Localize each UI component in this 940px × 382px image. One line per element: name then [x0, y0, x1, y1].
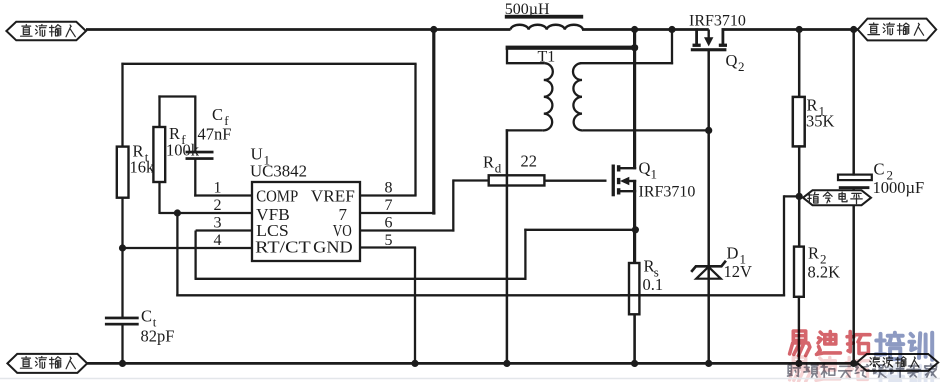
svg-text:500µH: 500µH	[505, 1, 550, 18]
label UC3842	[250, 162, 307, 181]
label 22	[521, 152, 538, 171]
label RT/CT pin name	[255, 237, 311, 256]
svg-text:C: C	[874, 160, 885, 179]
svg-text:8.2K: 8.2K	[808, 263, 841, 282]
svg-text:1: 1	[651, 167, 658, 182]
label IRF3710 for Q1	[639, 184, 696, 201]
wire R1 top vertical	[798, 28, 801, 98]
wire Q1 source vertical to LCS junction and Rs	[633, 180, 636, 264]
junction dot at 506.9,363.4	[503, 360, 510, 367]
svg-text:C: C	[141, 307, 152, 326]
wire C2 top vertical	[852, 28, 855, 176]
svg-text:4: 4	[214, 232, 222, 249]
junction dot at 634.6,29.5	[631, 26, 638, 33]
wire R1 bottom to divider node and R2	[798, 145, 801, 247]
transistor Q1 gate bar	[612, 165, 615, 197]
label 500µH	[505, 1, 550, 18]
node flag DC input top-left	[6, 22, 86, 41]
wire Rf top vertical	[158, 95, 160, 128]
node flag DC input top-right	[858, 19, 937, 41]
capacitor Ct plates	[105, 317, 139, 326]
wire Rt bottom to RT/CT junction and Ct	[121, 197, 123, 318]
wire Rf bottom vertical to pin 2	[158, 181, 160, 214]
wire LCS riser at x=525	[524, 229, 526, 280]
label COMP pin name	[256, 186, 298, 205]
pin number 6	[385, 215, 393, 232]
wire VFB sense vertical from pin2 junction	[176, 213, 178, 296]
svg-text:2: 2	[214, 197, 222, 214]
svg-text:3: 3	[214, 215, 222, 232]
node flag filter input bottom-right	[857, 354, 938, 371]
wire T1 primary left vertical + top horizontal	[507, 49, 545, 64]
svg-text:Q: Q	[726, 51, 738, 70]
label T1	[538, 49, 556, 66]
wire bracket right vertical down to Cf top	[194, 97, 196, 152]
resistor Rs body	[629, 263, 639, 314]
svg-text:0.1: 0.1	[643, 275, 664, 294]
diode D1 triangle	[696, 267, 721, 279]
wire VCC vertical to top rail	[432, 28, 435, 215]
label Rs	[644, 257, 659, 280]
label VREF pin name	[311, 186, 355, 205]
label D1	[727, 244, 747, 267]
op-amp U1 UC3842 box	[252, 182, 360, 261]
svg-text:IRF3710: IRF3710	[689, 12, 746, 29]
wire Rf-Cf bracket top horizontal	[158, 95, 196, 97]
wire GND vertical to ground rail	[414, 248, 416, 364]
wire top rail middle segment (after inductor)	[582, 28, 709, 31]
junction dot at 122.5,363.4	[119, 360, 126, 367]
inductor L 500µH coil	[511, 25, 583, 30]
watermark blue 培训	[876, 333, 933, 360]
svg-text:VREF: VREF	[311, 186, 355, 205]
svg-text:R: R	[808, 244, 819, 263]
watermark red 易迪拓	[790, 331, 870, 356]
pin number 1	[214, 180, 222, 197]
watermark gray 射频和天线设计专家	[788, 364, 937, 378]
wire VCC pin 7 horizontal	[360, 212, 435, 214]
wire top rail right segment (after Q2)	[722, 28, 859, 31]
label 35K	[806, 112, 835, 131]
label 8.2K	[808, 263, 841, 282]
label 指令电平	[808, 192, 863, 204]
wire T1 primary bottom horizontal	[506, 129, 543, 131]
transistor Q2 channel bar	[691, 48, 727, 51]
label Q1	[639, 159, 658, 182]
svg-text:47nF: 47nF	[198, 125, 232, 144]
junction dot at 853.7,363.4	[850, 360, 857, 367]
wire LCS vertical drop	[194, 231, 196, 279]
wire RT/CT pin 4 horizontal	[123, 247, 253, 249]
transformer T1 secondary winding coil	[573, 63, 583, 130]
svg-text:D: D	[727, 244, 739, 263]
wire VFB sense horizontal into divider node	[784, 195, 801, 197]
label 7 inside box	[339, 205, 348, 224]
junction dot at 433.8,29.5	[430, 26, 437, 33]
wire R2 bottom to ground rail	[798, 296, 800, 364]
junction dot at 798.9,363.4	[795, 360, 802, 367]
resistor Rf body	[153, 127, 165, 182]
wire VFB line over Rs (crossing)	[620, 294, 660, 296]
bottom page edge line	[0, 378, 940, 380]
label 47nF	[198, 125, 232, 144]
svg-text:5: 5	[385, 232, 393, 249]
svg-text:COMP: COMP	[256, 186, 298, 205]
wire VFB sense long horizontal	[176, 294, 785, 296]
wire pin 2 VFB horizontal	[160, 212, 253, 214]
label U1	[251, 145, 271, 168]
svg-text:35K: 35K	[806, 112, 835, 131]
label 82pF	[141, 327, 175, 346]
svg-text:7: 7	[385, 197, 393, 214]
junction dot at 672,29.5	[668, 26, 675, 33]
svg-text:RT/CT: RT/CT	[255, 237, 311, 256]
label 滤波输入 bottom-right	[870, 357, 919, 368]
svg-text:100k: 100k	[166, 141, 200, 160]
label LCS pin name	[256, 221, 289, 240]
resistor R2 body	[794, 247, 804, 297]
transistor Q2 drain stub	[693, 28, 701, 47]
transistor Q1 source stub	[620, 190, 637, 192]
label Q2	[726, 51, 745, 74]
wire VO horizontal to Rd	[453, 179, 489, 181]
junction dot at 853.7,29.5	[850, 26, 857, 33]
svg-text:1000µF: 1000µF	[873, 178, 925, 197]
svg-text:C: C	[212, 105, 223, 124]
label VFB pin name	[256, 205, 290, 224]
label Ct	[141, 307, 157, 330]
svg-text:22: 22	[521, 152, 538, 171]
wire LCS pin 3 horizontal	[196, 229, 252, 231]
wire VREF loop right vertical (down to pin 8)	[414, 64, 416, 196]
wire Ct bottom to ground rail	[121, 325, 123, 364]
wire Q2 gate vertical down through D1 to ground	[707, 51, 710, 364]
wire VO vertical riser	[452, 179, 454, 231]
label 12V	[724, 262, 753, 281]
svg-text:2: 2	[738, 59, 745, 74]
resistor Rd body	[489, 175, 545, 185]
label C2	[874, 160, 894, 183]
diode D1 zener cathode bar	[691, 261, 726, 272]
capacitor C2 bottom plate	[839, 186, 870, 189]
wire VREF loop top horizontal	[121, 63, 416, 65]
wire top rail left segment	[86, 28, 511, 31]
transistor Q1 body stub and arrow	[620, 177, 636, 186]
pin number 4	[214, 232, 222, 249]
svg-text:82pF: 82pF	[141, 327, 175, 346]
junction dot at 634.6,363.4	[631, 360, 638, 367]
label R2	[808, 244, 827, 267]
svg-text:d: d	[495, 161, 502, 176]
wire LCS upper horizontal to Rs top junction	[524, 229, 635, 231]
svg-text:6: 6	[385, 215, 393, 232]
label Rd	[483, 153, 502, 176]
svg-text:R: R	[483, 153, 494, 172]
junction dot at 708.7,363.4	[705, 360, 712, 367]
wire Cf bottom vertical to pin 1	[194, 159, 196, 197]
wire Rd to Q1 gate	[544, 180, 607, 182]
junction dot at 634.6,47.7	[631, 44, 638, 51]
junction dot at 708.7,130.4	[705, 127, 712, 134]
svg-text:UC3842: UC3842	[250, 162, 307, 181]
label GND pin name	[313, 237, 353, 256]
wire VO pin 6 horizontal	[360, 229, 454, 231]
label 直流输入 top-left	[21, 25, 76, 37]
svg-text:Q: Q	[639, 159, 651, 178]
junction dot at 635.4,229.8	[632, 226, 639, 233]
svg-text:1: 1	[214, 180, 222, 197]
svg-text:16k: 16k	[130, 158, 156, 177]
pin number 5	[385, 232, 393, 249]
wire drain vertical from rail to Q1 drain	[633, 28, 636, 169]
wire LCS long horizontal	[195, 278, 527, 280]
capacitor C2 top plate	[838, 175, 872, 181]
wire T1 primary vertical down to ground rail	[506, 129, 509, 363]
wire T1 secondary top horizontal	[580, 62, 673, 64]
transistor Q2 source stub	[719, 28, 727, 47]
pin number 2	[214, 197, 222, 214]
transistor Q1 channel ticks	[617, 165, 621, 194]
wire bottom ground rail	[87, 362, 861, 365]
label 1000µF	[873, 178, 925, 197]
label 直流输入 top-right	[868, 23, 924, 35]
capacitor Cf plates	[186, 151, 214, 160]
resistor R1 body	[793, 97, 805, 146]
label Rf	[169, 124, 186, 147]
transistor Q2 arrow	[704, 30, 713, 47]
svg-text:IRF3710: IRF3710	[639, 184, 696, 201]
transformer T1 core bar	[506, 46, 638, 50]
label 100k	[166, 141, 200, 160]
transformer T1 primary winding coil	[543, 63, 553, 130]
junction dot at 177.4,213	[174, 209, 181, 216]
resistor Rt body	[117, 147, 129, 198]
transistor Q1 drain stub	[620, 167, 637, 169]
wire C2 bottom vertical to ground rail	[852, 188, 855, 363]
svg-text:T1: T1	[538, 49, 556, 66]
label Rt	[133, 142, 149, 165]
wire Rs bottom to ground rail	[633, 314, 636, 364]
junction dot at 799.2,196.4	[796, 193, 803, 200]
label R1	[807, 96, 826, 119]
junction dot at 415,363.4	[411, 360, 418, 367]
wire secondary top vertical to rail	[671, 28, 673, 64]
wire VREF loop left vertical (Rt top to loop)	[123, 63, 148, 148]
wire VREF pin 8 horizontal	[360, 194, 417, 196]
junction dot at 122.5,248	[119, 244, 126, 251]
svg-text:GND: GND	[313, 237, 353, 256]
svg-text:12V: 12V	[724, 262, 753, 281]
wire GND pin 5 horizontal	[360, 246, 416, 248]
wire T1 secondary bottom horizontal to Q2 gate line	[583, 129, 709, 131]
svg-text:8: 8	[385, 180, 393, 197]
junction dot at 799.2,29.5	[796, 26, 803, 33]
inductor core bar	[505, 15, 583, 19]
label Cf	[212, 105, 229, 128]
label VO pin name	[333, 221, 352, 240]
wire COMP pin 1 horizontal	[194, 194, 252, 196]
node flag DC input bottom-left	[7, 354, 87, 373]
label 0.1	[643, 275, 664, 294]
label 直流输入 bottom-left	[20, 357, 75, 369]
pin number 7	[385, 197, 393, 214]
watermark reflection pink	[790, 357, 869, 382]
node flag command level 指令电平	[803, 190, 871, 205]
watermark reflection blue	[876, 365, 933, 382]
pin number 3	[214, 215, 222, 232]
pin number 8	[385, 180, 393, 197]
label 16k	[130, 158, 156, 177]
wire VFB sense riser at x=784	[783, 195, 785, 296]
label IRF3710 for Q2	[689, 12, 746, 29]
